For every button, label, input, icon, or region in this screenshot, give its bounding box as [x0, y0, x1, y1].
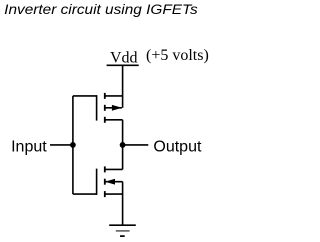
svg-text:(+5 volts): (+5 volts) [146, 47, 209, 64]
svg-text:Inverter circuit using IGFETs: Inverter circuit using IGFETs [4, 2, 198, 17]
svg-text:Input: Input [11, 138, 47, 155]
svg-text:Output: Output [153, 138, 202, 155]
svg-text:Vdd: Vdd [110, 50, 138, 67]
